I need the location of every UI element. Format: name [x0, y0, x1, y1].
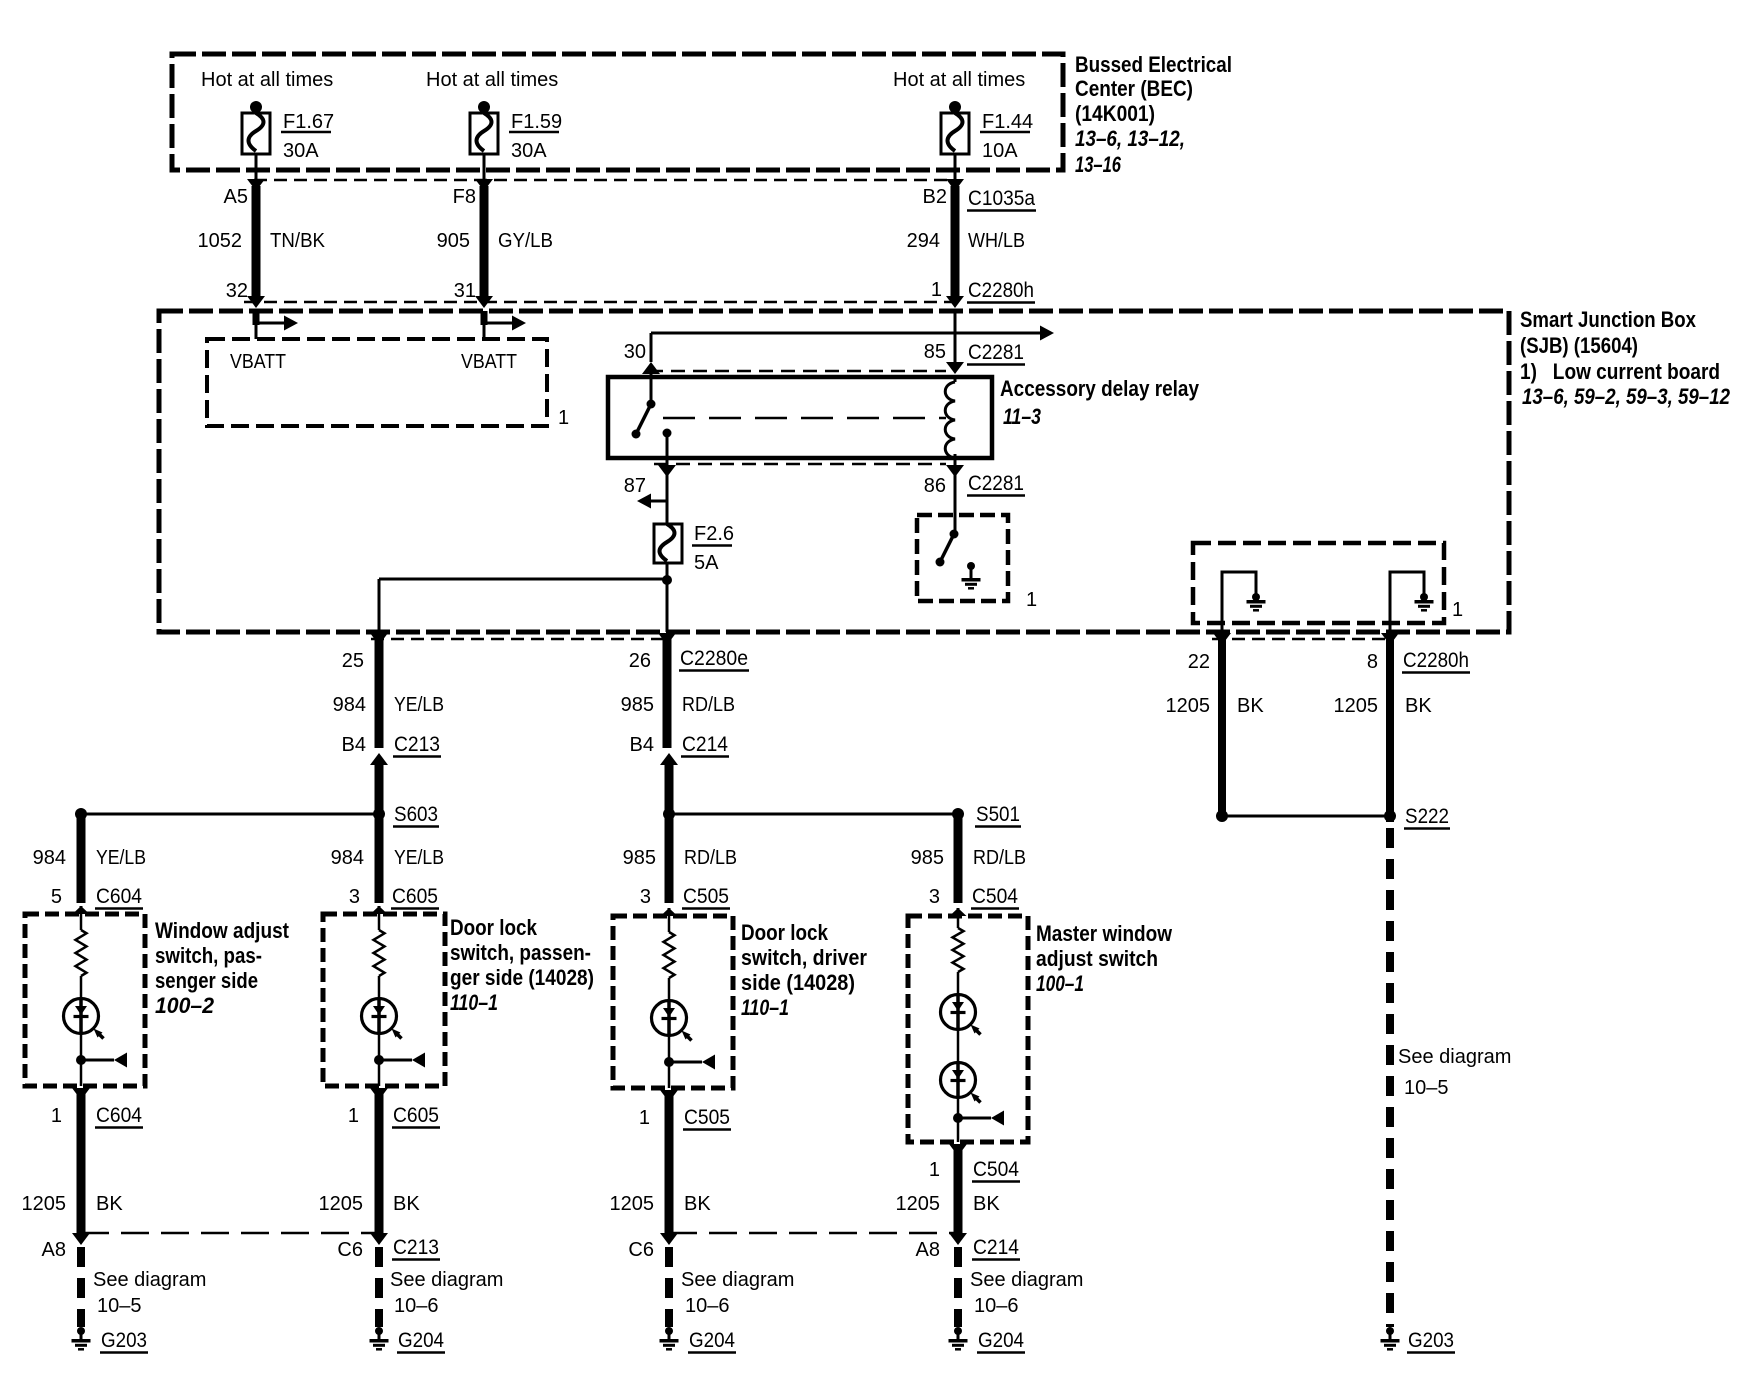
connector C605 label (upper): [391, 885, 439, 909]
col3 switch resistor: [664, 916, 675, 1002]
ground G204 label (col4): [977, 1329, 1025, 1353]
circuit 985 RD/LB label (upper): [621, 694, 735, 716]
svg-text:adjust switch: adjust switch: [1036, 946, 1158, 971]
svg-text:Center (BEC): Center (BEC): [1075, 76, 1193, 101]
svg-text:294: 294: [907, 230, 940, 252]
svg-text:86: 86: [924, 475, 946, 497]
svg-text:Window adjust: Window adjust: [155, 918, 290, 943]
connector C504 label (upper): [971, 885, 1019, 909]
connector C604 label (lower): [95, 1104, 143, 1128]
svg-text:1: 1: [1452, 599, 1463, 621]
connector C1035a label: [967, 187, 1036, 211]
wire S501 to C504 (circuit 985): [954, 814, 963, 903]
svg-text:13–16: 13–16: [1075, 152, 1122, 177]
pin 32 label: [226, 280, 248, 302]
wire to G204 dashed (col3): [660, 1233, 678, 1327]
fuse F1.44: [941, 101, 969, 154]
fuse F1.67 value label: [281, 111, 334, 162]
wire S222 to G203 (dashed): [1386, 828, 1394, 1327]
svg-text:F2.6: F2.6: [694, 523, 734, 545]
pin 3 label (C605): [349, 886, 360, 908]
circuit 1052 TN/BK label: [198, 230, 326, 252]
col4 switch LED 1: [941, 995, 981, 1035]
svg-text:B4: B4: [342, 734, 366, 756]
fuse F2.6 value label: [692, 523, 734, 574]
pin 22 label: [1188, 651, 1210, 673]
svg-text:side (14028): side (14028): [741, 970, 855, 995]
wire S603 to C605 (circuit 984): [375, 814, 384, 903]
connector C504 label (lower): [972, 1158, 1020, 1182]
svg-text:RD/LB: RD/LB: [973, 847, 1026, 869]
svg-text:C604: C604: [96, 885, 142, 908]
wire out of door lock switch driver: [660, 1090, 678, 1237]
ground G204 label (col3): [688, 1329, 736, 1353]
circuit 984 YE/LB label (upper): [333, 694, 444, 716]
svg-text:A5: A5: [224, 186, 248, 208]
svg-text:S501: S501: [976, 803, 1020, 826]
pin 87 label: [624, 475, 646, 497]
pin 3 label (C505): [640, 886, 651, 908]
svg-text:G204: G204: [398, 1329, 444, 1352]
col2 switch LED: [362, 999, 402, 1039]
see diagram 10-5 note (right): [1398, 1046, 1511, 1099]
pin 31 label: [454, 280, 476, 302]
svg-text:C213: C213: [393, 1236, 439, 1259]
pin 1 label (C604): [51, 1105, 62, 1127]
pin 25 label: [342, 650, 364, 672]
relay switch: [632, 377, 672, 458]
svg-text:G203: G203: [101, 1329, 147, 1352]
wire S603 to C604 (circuit 984): [77, 814, 86, 903]
svg-text:C214: C214: [682, 733, 728, 756]
svg-text:1052: 1052: [198, 230, 243, 252]
col1 switch LED: [64, 999, 104, 1039]
connector C214 label (upper): [681, 733, 729, 757]
door lock switch driver label: [741, 920, 867, 1020]
svg-text:11–3: 11–3: [1003, 404, 1041, 429]
svg-text:5: 5: [51, 886, 62, 908]
pin 85 label: [924, 341, 946, 363]
svg-text:Hot at all times: Hot at all times: [426, 69, 558, 91]
connector C505 label (upper): [682, 885, 730, 909]
pin A8 label (C214): [916, 1239, 940, 1261]
pin C6 label (C214): [628, 1239, 654, 1261]
wire into door lock switch driver: [661, 908, 678, 916]
branch wire to pin 25: [379, 579, 667, 632]
svg-text:85: 85: [924, 341, 946, 363]
svg-text:C504: C504: [972, 885, 1018, 908]
col1 LED to contact wire: [80, 1032, 83, 1060]
connector C505 label (lower): [683, 1106, 731, 1130]
in-line connector region dashed outline: [244, 180, 955, 302]
svg-text:C2280e: C2280e: [680, 647, 748, 670]
svg-text:110–1: 110–1: [450, 990, 498, 1015]
wire below fuse F2.6 with junction: [662, 563, 672, 632]
pin 8 label: [1367, 651, 1378, 673]
col2 contact to box bottom: [378, 1060, 381, 1086]
svg-text:C2281: C2281: [968, 472, 1024, 495]
col1 switch contact: [76, 1053, 127, 1068]
relay connector dashed line (top): [649, 370, 946, 373]
svg-text:BK: BK: [1405, 695, 1432, 717]
VBATT box note 1: [558, 407, 569, 429]
svg-text:3: 3: [640, 886, 651, 908]
left internal ground symbol: [1247, 593, 1266, 610]
wire into window adjust switch: [73, 906, 90, 914]
pin 86 label: [924, 475, 946, 497]
left internal ground wire: [1222, 572, 1256, 632]
svg-text:See diagram: See diagram: [970, 1269, 1083, 1291]
svg-text:G204: G204: [978, 1329, 1024, 1352]
connector C2280h dashed line (right): [1212, 638, 1390, 641]
svg-text:1: 1: [51, 1105, 62, 1127]
pin 3 label (C504): [929, 886, 940, 908]
svg-text:C605: C605: [392, 885, 438, 908]
bus wire to other circuits (arrow right): [651, 326, 1054, 341]
Bussed Electrical Center (BEC) box: [172, 54, 1063, 170]
internal ground symbol: [962, 562, 981, 588]
svg-text:984: 984: [331, 847, 364, 869]
svg-text:(14K001): (14K001): [1075, 101, 1155, 126]
wire pin 26 (circuit 985): [658, 633, 676, 748]
svg-text:1: 1: [929, 1159, 940, 1181]
BEC label: [1075, 52, 1232, 177]
svg-text:C6: C6: [337, 1239, 363, 1261]
svg-text:1205: 1205: [896, 1193, 941, 1215]
relay linkage dashed line: [663, 417, 946, 420]
svg-text:BK: BK: [96, 1193, 123, 1215]
circuit 1205 BK label (pin 8): [1334, 695, 1433, 717]
svg-text:32: 32: [226, 280, 248, 302]
svg-text:See diagram: See diagram: [93, 1269, 206, 1291]
svg-text:switch, passen-: switch, passen-: [450, 940, 591, 965]
relay pin 30 wire: [642, 333, 660, 377]
svg-text:905: 905: [437, 230, 470, 252]
svg-text:See diagram: See diagram: [390, 1269, 503, 1291]
svg-text:YE/LB: YE/LB: [394, 847, 444, 869]
svg-text:C2280h: C2280h: [968, 279, 1034, 302]
window adjust switch label: [155, 918, 290, 1018]
pin B4 label (C214): [630, 734, 654, 756]
svg-text:13–6, 59–2, 59–3, 59–12: 13–6, 59–2, 59–3, 59–12: [1522, 384, 1731, 409]
svg-text:1: 1: [348, 1105, 359, 1127]
svg-text:C505: C505: [683, 885, 729, 908]
pin 1 label (C605): [348, 1105, 359, 1127]
door lock switch driver dashed box: [613, 916, 733, 1088]
svg-text:1205: 1205: [1166, 695, 1211, 717]
svg-text:C6: C6: [628, 1239, 654, 1261]
svg-text:switch, driver: switch, driver: [741, 945, 867, 970]
circuit 905 GY/LB label: [437, 230, 553, 252]
col2 LED to contact wire: [378, 1032, 381, 1060]
svg-text:B4: B4: [630, 734, 654, 756]
wire to G204 dashed (col2): [370, 1233, 388, 1327]
col2 switch contact: [374, 1053, 425, 1068]
svg-text:F1.59: F1.59: [511, 111, 562, 133]
circuit 984 YE/LB label (col1): [33, 847, 146, 869]
fuse F1.44 value label: [980, 111, 1033, 162]
pin C6 label (C213): [337, 1239, 363, 1261]
svg-text:BK: BK: [973, 1193, 1000, 1215]
svg-text:VBATT: VBATT: [230, 351, 286, 373]
wire pin 8 (circuit 1205): [1381, 633, 1399, 822]
svg-text:(SJB) (15604): (SJB) (15604): [1520, 333, 1638, 358]
wire B4/C213 to S603: [370, 753, 388, 814]
master window adjust switch dashed box: [908, 916, 1028, 1142]
pin 5 label (C604): [51, 886, 62, 908]
svg-text:984: 984: [333, 694, 366, 716]
pin B4 label (C213): [342, 734, 366, 756]
VBATT label (left): [230, 351, 286, 373]
col4 switch resistor: [953, 916, 964, 996]
pin B2 label: [923, 186, 947, 208]
svg-text:984: 984: [33, 847, 66, 869]
svg-text:100–2: 100–2: [155, 993, 215, 1018]
circuit 1205 BK label (col3): [610, 1193, 712, 1215]
svg-text:F1.67: F1.67: [283, 111, 334, 133]
svg-text:C604: C604: [96, 1104, 142, 1127]
svg-text:1205: 1205: [610, 1193, 655, 1215]
SJB internal switch-to-ground dashed box: [917, 515, 1008, 601]
pin A5 label: [224, 186, 248, 208]
svg-text:30: 30: [624, 341, 646, 363]
relay pin 86 wire: [946, 458, 964, 515]
ground box note 1: [1026, 589, 1037, 611]
svg-text:3: 3: [929, 886, 940, 908]
circuit 985 RD/LB label (col3): [623, 847, 737, 869]
svg-text:1: 1: [931, 279, 942, 301]
wire from fuse F1.59 (circuit 905): [475, 153, 493, 308]
svg-text:RD/LB: RD/LB: [684, 847, 737, 869]
svg-text:C505: C505: [684, 1106, 730, 1129]
wire pin 22 (circuit 1205): [1213, 633, 1231, 816]
relay connector dashed line (bottom): [654, 463, 946, 466]
svg-text:S222: S222: [1405, 805, 1449, 828]
pin A8 label (C213): [42, 1239, 66, 1261]
svg-text:C2280h: C2280h: [1403, 649, 1469, 672]
ground G204 (col4): [949, 1327, 968, 1349]
svg-text:1205: 1205: [319, 1193, 364, 1215]
svg-text:F8: F8: [453, 186, 476, 208]
splice S603: [75, 808, 385, 820]
right internal ground symbol: [1415, 593, 1434, 610]
svg-text:Accessory delay relay: Accessory delay relay: [1000, 376, 1200, 401]
wire pin 25 (circuit 984): [370, 633, 388, 748]
pin 30 label: [624, 341, 646, 363]
wire into door lock switch passenger: [371, 906, 388, 914]
ground G204 (col2): [370, 1327, 389, 1349]
wire from fuse F1.44 (circuit 294): [946, 153, 964, 308]
svg-text:8: 8: [1367, 651, 1378, 673]
svg-text:31: 31: [454, 280, 476, 302]
col4 LED2 to contact wire: [957, 1096, 960, 1118]
window adjust switch passenger dashed box: [25, 914, 145, 1086]
pin 1 label (C504): [929, 1159, 940, 1181]
svg-text:1205: 1205: [22, 1193, 67, 1215]
svg-text:3: 3: [349, 886, 360, 908]
connector C2280e label: [679, 647, 749, 671]
VBATT label (right): [461, 351, 517, 373]
wire from fuse F1.67 (circuit 1052): [247, 153, 265, 308]
svg-text:10–6: 10–6: [394, 1295, 439, 1317]
svg-text:1) Low current board: 1) Low current board: [1520, 359, 1720, 384]
col4 switch LED 2: [941, 1063, 981, 1103]
pin F8 label: [453, 186, 476, 208]
svg-text:YE/LB: YE/LB: [96, 847, 146, 869]
svg-text:Smart Junction Box: Smart Junction Box: [1520, 307, 1697, 332]
internal ground switch: [936, 515, 959, 567]
circuit 1205 BK label (col4): [896, 1193, 1001, 1215]
wire 32 into SJB / VBATT: [256, 311, 298, 339]
connector C2281 label (bottom): [967, 472, 1025, 496]
connector C2280e dashed line: [371, 638, 667, 641]
see diagram 10-6 note (col3): [681, 1269, 794, 1317]
connector C214 dashed line: [669, 1232, 958, 1235]
svg-text:30A: 30A: [511, 140, 547, 162]
col4 contact to box bottom: [957, 1118, 960, 1142]
svg-text:5A: 5A: [694, 552, 719, 574]
svg-text:RD/LB: RD/LB: [682, 694, 735, 716]
connector C213 dashed line: [81, 1232, 379, 1235]
svg-text:BK: BK: [393, 1193, 420, 1215]
fuse F1.59: [470, 101, 498, 154]
wire S501 to C505 (circuit 985): [665, 814, 674, 903]
svg-text:ger side (14028): ger side (14028): [450, 965, 594, 990]
svg-text:100–1: 100–1: [1036, 971, 1084, 996]
ground G203 label (col1): [100, 1329, 148, 1353]
svg-text:VBATT: VBATT: [461, 351, 517, 373]
svg-text:985: 985: [623, 847, 656, 869]
circuit 984 YE/LB label (col2): [331, 847, 444, 869]
wire B4/C214 to S501: [660, 753, 678, 814]
svg-text:C504: C504: [973, 1158, 1019, 1181]
splice S222: [1216, 810, 1396, 822]
svg-text:See diagram: See diagram: [1398, 1046, 1511, 1068]
svg-text:1: 1: [558, 407, 569, 429]
grounds box note 1: [1452, 599, 1463, 621]
wire to G203 dashed (col1): [72, 1233, 90, 1327]
svg-text:C1035a: C1035a: [968, 187, 1035, 210]
wire into master window adjust switch: [950, 908, 967, 916]
svg-text:10A: 10A: [982, 140, 1018, 162]
wire out of door lock switch passenger: [370, 1088, 388, 1237]
svg-text:87: 87: [624, 475, 646, 497]
svg-text:C605: C605: [393, 1104, 439, 1127]
svg-text:A8: A8: [916, 1239, 940, 1261]
relay coil: [945, 377, 955, 458]
connector C2280h label (right): [1402, 649, 1470, 673]
pin 1 label: [931, 279, 942, 301]
svg-text:25: 25: [342, 650, 364, 672]
right internal ground wire: [1390, 572, 1424, 632]
col1 contact to box bottom: [80, 1060, 83, 1086]
svg-text:C2281: C2281: [968, 341, 1024, 364]
svg-text:22: 22: [1188, 651, 1210, 673]
svg-text:985: 985: [621, 694, 654, 716]
door lock switch passenger label: [450, 915, 594, 1015]
svg-text:Hot at all times: Hot at all times: [893, 69, 1025, 91]
svg-text:A8: A8: [42, 1239, 66, 1261]
svg-text:30A: 30A: [283, 140, 319, 162]
pin 1 label (C505): [639, 1107, 650, 1129]
svg-text:senger side: senger side: [155, 968, 258, 993]
label: Hot at all times (right): [893, 69, 1025, 91]
splice S501 label: [975, 803, 1021, 827]
col2 switch resistor: [374, 914, 385, 1000]
svg-text:1205: 1205: [1334, 695, 1379, 717]
svg-text:F1.44: F1.44: [982, 111, 1033, 133]
svg-text:Hot at all times: Hot at all times: [201, 69, 333, 91]
wire out of master window adjust switch: [949, 1144, 967, 1237]
see diagram 10-6 note (col2): [390, 1269, 503, 1317]
SJB label: [1520, 307, 1731, 409]
splice S222 label: [1404, 805, 1450, 829]
svg-text:YE/LB: YE/LB: [394, 694, 444, 716]
svg-text:13–6, 13–12,: 13–6, 13–12,: [1075, 126, 1185, 151]
branch arrow to other circuit (left): [637, 494, 667, 509]
see diagram 10-6 note (col4): [970, 1269, 1083, 1317]
svg-text:985: 985: [911, 847, 944, 869]
see diagram 10-5 note (col1): [93, 1269, 206, 1317]
col1 switch resistor: [76, 914, 87, 1000]
connector C213 label (lower): [392, 1236, 440, 1260]
col3 switch contact: [664, 1055, 715, 1070]
svg-text:G204: G204: [689, 1329, 735, 1352]
svg-text:110–1: 110–1: [741, 995, 789, 1020]
label: Hot at all times (middle): [426, 69, 558, 91]
col4 switch contact: [953, 1111, 1004, 1126]
connector C2281 label (top): [967, 341, 1025, 365]
splice S501: [663, 808, 964, 820]
svg-text:10–5: 10–5: [1404, 1077, 1449, 1099]
door lock switch passenger dashed box: [323, 914, 445, 1086]
svg-text:C213: C213: [394, 733, 440, 756]
svg-text:Master window: Master window: [1036, 921, 1173, 946]
svg-text:BK: BK: [1237, 695, 1264, 717]
svg-text:1: 1: [1026, 589, 1037, 611]
connector C214 label (lower): [972, 1236, 1020, 1260]
connector C213 label (upper): [393, 733, 441, 757]
svg-text:switch, pas-: switch, pas-: [155, 943, 262, 968]
svg-text:G203: G203: [1408, 1329, 1454, 1352]
svg-text:Door lock: Door lock: [450, 915, 538, 940]
pin 26 label: [629, 650, 651, 672]
svg-text:Bussed Electrical: Bussed Electrical: [1075, 52, 1232, 77]
ground G203 label (right): [1407, 1329, 1455, 1353]
circuit 1205 BK label (pin 22): [1166, 695, 1265, 717]
svg-text:C214: C214: [973, 1236, 1019, 1259]
circuit 985 RD/LB label (col4): [911, 847, 1026, 869]
svg-text:WH/LB: WH/LB: [968, 230, 1025, 252]
accessory delay relay box: [608, 377, 992, 458]
svg-text:TN/BK: TN/BK: [270, 230, 326, 252]
fuse F1.67: [242, 101, 270, 154]
VBATT dashed box: [207, 339, 547, 426]
svg-text:10–5: 10–5: [97, 1295, 142, 1317]
ground G204 (col3): [660, 1327, 679, 1349]
wire 31 into SJB / VBATT: [484, 311, 526, 339]
ground G204 label (col2): [397, 1329, 445, 1353]
connector C605 label (lower): [392, 1104, 440, 1128]
fuse F1.59 value label: [509, 111, 562, 162]
svg-text:1: 1: [639, 1107, 650, 1129]
svg-text:See diagram: See diagram: [681, 1269, 794, 1291]
svg-text:S603: S603: [394, 803, 438, 826]
col3 LED to contact wire: [668, 1034, 671, 1062]
wire out of window adjust switch: [72, 1088, 90, 1237]
label: Hot at all times (left): [201, 69, 333, 91]
fuse F2.6: [654, 501, 682, 563]
